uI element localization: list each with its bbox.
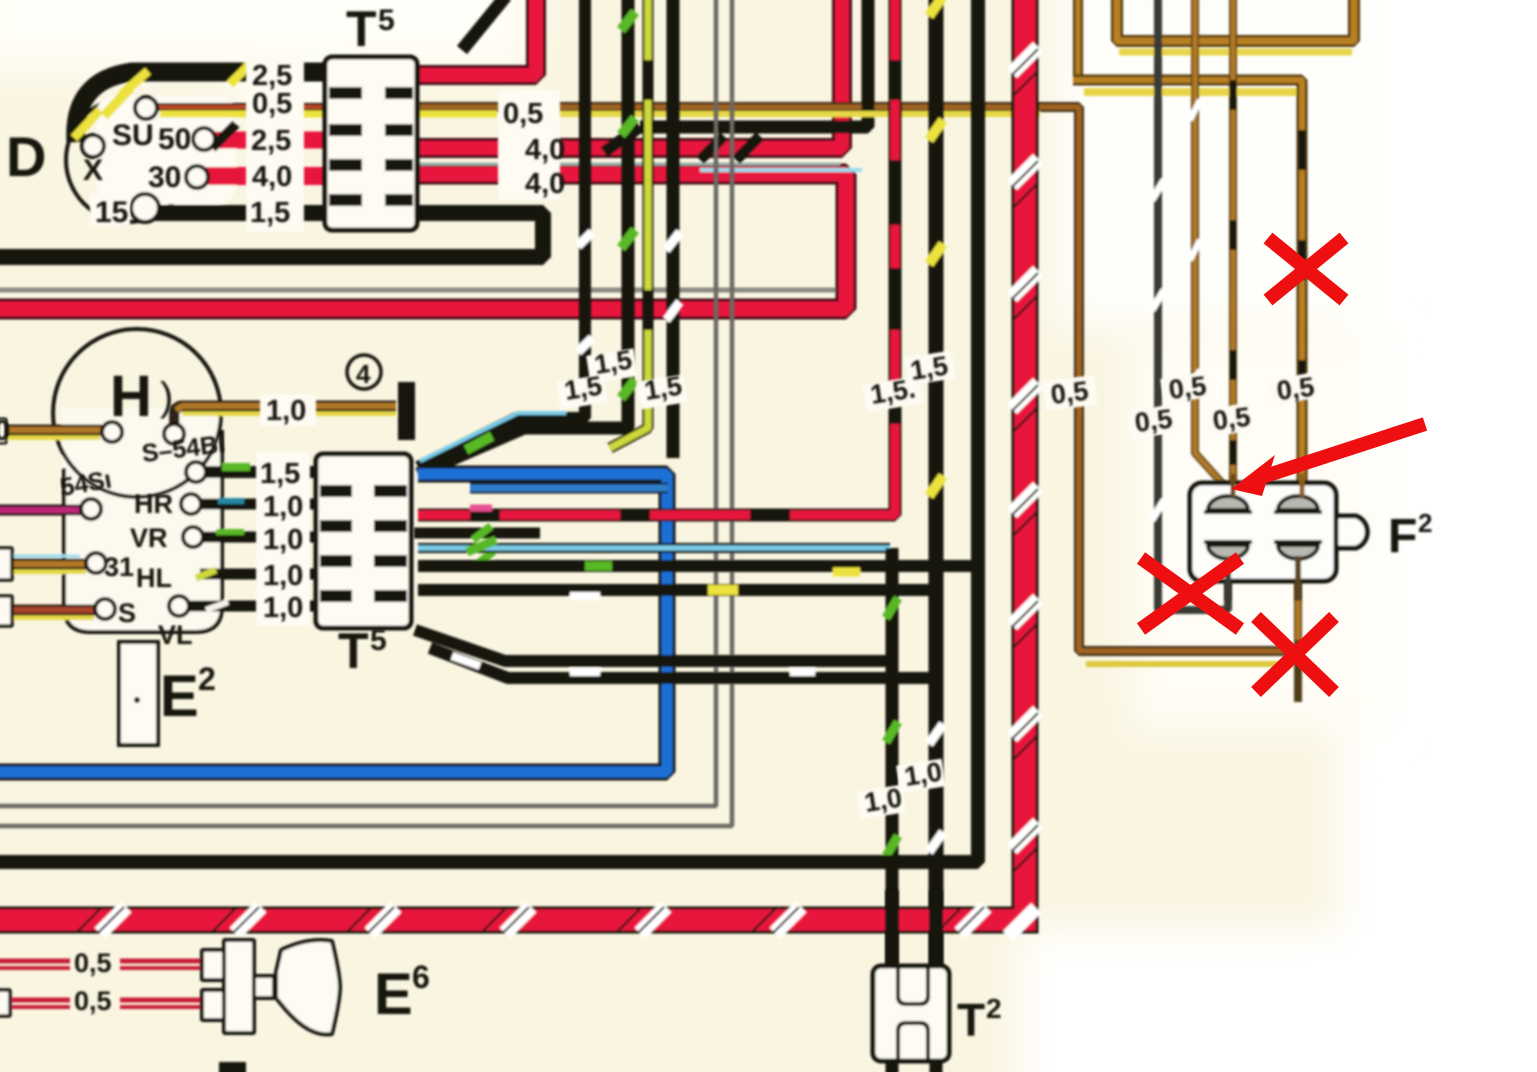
- svg-text:0,5: 0,5: [252, 88, 292, 120]
- svg-text:2: 2: [986, 993, 1002, 1024]
- svg-text:0,5: 0,5: [1167, 371, 1208, 405]
- svg-text:0,5: 0,5: [1049, 376, 1090, 410]
- svg-text:6: 6: [412, 959, 430, 995]
- svg-text:1,0: 1,0: [263, 592, 303, 624]
- svg-text:X: X: [83, 154, 103, 187]
- svg-text:0,5: 0,5: [74, 986, 112, 1016]
- svg-text:50: 50: [158, 123, 191, 156]
- svg-text:5: 5: [370, 624, 387, 657]
- svg-text:F: F: [1388, 510, 1417, 563]
- svg-text:T: T: [346, 1, 377, 57]
- svg-text:4,0: 4,0: [252, 161, 292, 193]
- svg-text:E: E: [374, 962, 413, 1027]
- svg-text:1,5: 1,5: [908, 350, 950, 386]
- svg-text:E: E: [160, 664, 199, 729]
- svg-text:0,5: 0,5: [503, 98, 543, 130]
- svg-text:HL: HL: [136, 563, 172, 593]
- svg-text:HR: HR: [134, 489, 173, 519]
- svg-text:T: T: [338, 623, 369, 679]
- svg-text:0,5: 0,5: [1211, 402, 1252, 436]
- svg-text:2: 2: [198, 661, 216, 697]
- svg-text:D: D: [6, 125, 46, 188]
- svg-text:1,5: 1,5: [642, 370, 684, 406]
- svg-text:0,5: 0,5: [1133, 404, 1174, 438]
- svg-text:1,0: 1,0: [263, 491, 303, 523]
- svg-text:5: 5: [378, 4, 395, 37]
- svg-text:1,5: 1,5: [592, 344, 634, 380]
- svg-text:1,0: 1,0: [902, 756, 944, 792]
- svg-text:VR: VR: [130, 523, 168, 553]
- svg-text:VL: VL: [158, 620, 193, 650]
- svg-text:4: 4: [356, 359, 371, 389]
- svg-text:): ): [160, 375, 173, 419]
- svg-text:T: T: [957, 994, 985, 1046]
- svg-text:H: H: [110, 364, 152, 429]
- svg-text:0,5: 0,5: [74, 948, 112, 978]
- svg-text:1,0: 1,0: [862, 782, 904, 818]
- svg-text:SU: SU: [112, 119, 154, 152]
- svg-text:2: 2: [1418, 508, 1432, 538]
- svg-text:1,0: 1,0: [266, 395, 306, 427]
- svg-text:1,5: 1,5: [250, 197, 290, 229]
- svg-text:1,5: 1,5: [260, 458, 300, 490]
- svg-text:S: S: [118, 598, 136, 628]
- svg-text:4,0: 4,0: [525, 168, 565, 200]
- svg-text:2,5: 2,5: [251, 125, 291, 157]
- svg-text:0,5: 0,5: [1275, 372, 1316, 406]
- svg-text:15: 15: [95, 196, 128, 229]
- svg-text:1,0: 1,0: [263, 560, 303, 592]
- svg-text:30: 30: [148, 161, 181, 194]
- svg-text:1,0: 1,0: [263, 524, 303, 556]
- svg-text:4,0: 4,0: [525, 134, 565, 166]
- svg-text:31: 31: [104, 552, 134, 582]
- svg-text:0: 0: [0, 415, 10, 447]
